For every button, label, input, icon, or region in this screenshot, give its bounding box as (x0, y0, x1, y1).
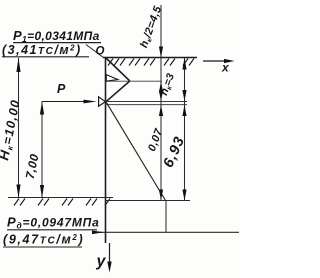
drop vertical from diagram corner (165, 201, 167, 233)
dimension line 7,00 (41, 102, 43, 198)
pressure bulge edge V1 to force point (106, 81, 130, 102)
dimension line hk/2 and 0,07 (x=161) (160, 5, 162, 200)
svg-text:P: P (57, 82, 66, 96)
underline of Pd label (7, 229, 97, 231)
svg-text:(3,41ТС/м2): (3,41ТС/м2) (2, 43, 82, 57)
dimension line hk=3 and 6,93 (x=184.5) (184, 58, 186, 201)
leader arrow from Pd label to the right (92, 231, 239, 233)
dimension line Hk total height (18, 58, 20, 197)
underline2 of P1 label (2, 56, 89, 58)
x axis arrow (203, 60, 228, 62)
double line at force level upper (106, 101, 188, 103)
main pressure diagonal (106, 102, 166, 201)
pressure diagram bottom line (106, 200, 191, 202)
double line at force level lower (106, 104, 188, 106)
level line at V1 depth (106, 80, 163, 82)
ground surface line (103, 57, 197, 59)
pressure bulge edge O to V1 (106, 58, 130, 82)
open arrowhead on level line at wall (106, 75, 118, 82)
force P horizontal line (42, 101, 86, 103)
force P open arrowhead at wall (99, 97, 106, 106)
underline2 of Pd label (3, 246, 82, 248)
wall bottom line (8, 197, 113, 199)
ground hatching top (108, 59, 194, 66)
y axis arrow (109, 243, 111, 265)
svg-text:(9,47ТС/м2): (9,47ТС/м2) (3, 233, 84, 247)
wall (retaining structure) vertical line (105, 58, 107, 244)
underline of P1 label (13, 42, 101, 44)
force P filled arrowhead (84, 100, 97, 104)
svg-text:O: O (96, 46, 105, 58)
svg-text:x: x (221, 61, 230, 75)
svg-text:y: y (96, 253, 107, 270)
leader line from P1 label to origin O (86, 45, 104, 59)
ground hatching bottom (14, 199, 110, 206)
